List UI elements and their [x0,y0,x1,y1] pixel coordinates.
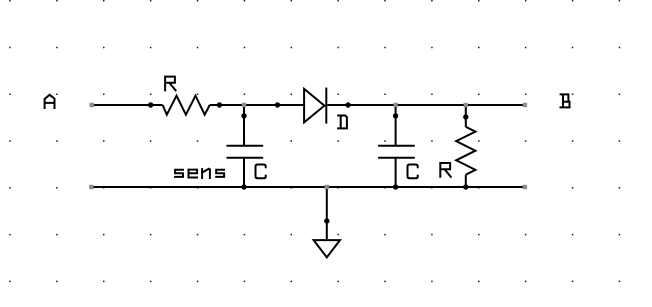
node B [561,94,570,107]
C1 bottom junction [241,184,246,189]
C2 pin junction [393,113,398,118]
diode D1 [304,88,326,124]
capacitor C2 [378,105,415,187]
label C for C1 [256,165,266,179]
R2 bottom junction [463,184,468,189]
wire A to R1 [92,104,163,106]
C2 top endpoint marker [393,103,397,107]
endpoint marker B [523,103,527,107]
junction on wire at x=150.7 [148,102,153,107]
label D for D1 [338,116,347,129]
label R for R2 [440,163,451,177]
junction at x=348 [345,102,350,107]
wire D1 to B [327,104,525,106]
wire bottom rail (sens net) [91,186,525,188]
endpoint marker A [90,103,94,107]
label C for C2 [408,165,418,179]
ground [314,187,340,257]
C2 bottom junction [393,184,398,189]
resistor R2 [456,105,475,187]
net label sens [175,169,224,178]
rail right endpoint marker [523,185,527,189]
wire R1 to D1 [210,104,304,106]
R2 top endpoint marker [464,103,468,107]
C1 pin junction [241,113,246,118]
label R for R1 [165,77,176,91]
capacitor C1 [227,105,264,187]
rail left endpoint marker [89,185,93,189]
junction at x=219.5 [217,102,222,107]
junction at x=277.5 [275,102,280,107]
R2 pin junction [463,114,468,119]
resistor R1 [163,96,210,115]
node A [45,95,55,108]
C1 top endpoint marker [242,103,246,107]
ground endpoint marker [325,185,329,189]
